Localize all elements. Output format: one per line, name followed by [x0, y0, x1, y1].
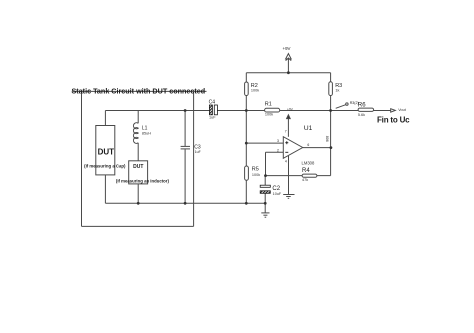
svg-text:R4: R4 — [302, 168, 310, 174]
svg-text:+9V: +9V — [287, 108, 294, 112]
svg-text:6: 6 — [307, 143, 309, 147]
svg-text:R3(2): R3(2) — [350, 101, 359, 105]
svg-text:C4: C4 — [209, 100, 216, 106]
svg-text:DUT: DUT — [133, 164, 143, 170]
svg-text:806: 806 — [325, 136, 329, 142]
svg-text:2: 2 — [277, 148, 279, 152]
svg-text:R5: R5 — [252, 166, 259, 172]
svg-text:1uF: 1uF — [209, 115, 216, 119]
svg-text:1uF: 1uF — [195, 150, 201, 154]
svg-text:(If measuring a Cap): (If measuring a Cap) — [84, 163, 126, 168]
svg-text:4: 4 — [285, 160, 287, 164]
svg-text:1k: 1k — [335, 89, 339, 93]
svg-text:100k: 100k — [265, 113, 273, 117]
svg-text:U1: U1 — [304, 125, 313, 132]
svg-text:(If measuring an Inductor): (If measuring an Inductor) — [116, 178, 170, 183]
svg-text:Vout: Vout — [398, 108, 407, 112]
svg-text:5.6k: 5.6k — [358, 113, 365, 117]
svg-text:10uF: 10uF — [273, 192, 282, 196]
svg-text:+9V: +9V — [283, 46, 291, 51]
svg-text:100k: 100k — [252, 173, 260, 177]
svg-text:R6: R6 — [358, 102, 366, 108]
svg-text:Static Tank Circuit with DUT c: Static Tank Circuit with DUT connected — [72, 87, 206, 96]
svg-text:7: 7 — [285, 129, 287, 133]
svg-text:DUT: DUT — [98, 148, 115, 157]
svg-text:R1: R1 — [265, 102, 272, 108]
svg-text:3: 3 — [277, 139, 279, 143]
svg-text:100k: 100k — [251, 89, 259, 93]
svg-text:85uH: 85uH — [142, 132, 151, 136]
svg-text:47k: 47k — [302, 178, 308, 182]
svg-text:LM308: LM308 — [302, 160, 315, 165]
svg-text:Fin to Uc: Fin to Uc — [377, 116, 410, 125]
